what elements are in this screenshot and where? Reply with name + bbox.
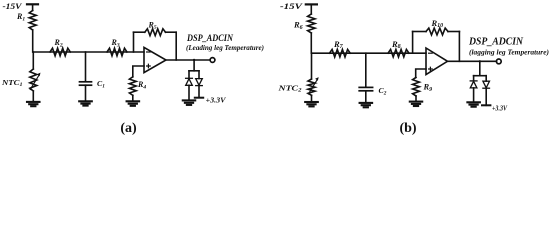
wire NTC2 column	[311, 53, 313, 79]
wire to D4	[485, 76, 487, 81]
wire NTC2 to ground	[311, 95, 313, 101]
resistor R1	[29, 11, 36, 31]
op-amp U2	[426, 48, 448, 75]
wire plus input	[133, 66, 144, 77]
power rail -15V symbol (b)	[306, 4, 317, 14]
svg-text:(b): (b)	[399, 121, 416, 136]
wire main rail (b)	[311, 52, 426, 54]
svg-text:-15V: -15V	[280, 1, 304, 11]
wire diode bracket (b)	[474, 75, 487, 77]
svg-text:DSP_ADCIN: DSP_ADCIN	[186, 33, 233, 43]
svg-text:-15V: -15V	[3, 1, 23, 11]
resistor R8	[388, 49, 409, 57]
thermistor NTC2	[308, 77, 319, 95]
diode D3 (to ground)	[470, 81, 477, 88]
svg-text:DSP_ADCIN: DSP_ADCIN	[468, 37, 524, 48]
ground under C2	[360, 103, 373, 107]
ground under D3	[467, 102, 480, 106]
resistor R5	[145, 29, 166, 36]
wire diode bracket	[189, 70, 199, 72]
wire D1 to ground	[188, 85, 190, 99]
wire plus input (b)	[416, 69, 426, 77]
thermistor NTC1	[30, 69, 41, 91]
wire to D2	[198, 71, 200, 79]
ground under R9	[410, 102, 422, 106]
wire R9 to ground	[415, 96, 417, 101]
svg-text:(a): (a)	[120, 121, 137, 136]
+3.3V rail bar (b)	[482, 104, 490, 106]
resistor R7	[330, 49, 351, 57]
diode D4 (to +3.3V)	[483, 81, 490, 88]
wire NTC1 column	[32, 52, 34, 69]
diode D1 (to ground)	[186, 78, 193, 85]
wire C2 column	[365, 53, 367, 87]
wire to D1	[188, 71, 190, 78]
svg-text:(lagging leg Temperature): (lagging leg Temperature)	[469, 47, 549, 56]
wire feedback up (b)	[412, 32, 414, 54]
op-amp U1	[144, 47, 166, 72]
wire feedback up	[133, 32, 135, 52]
wire output	[166, 59, 210, 61]
wire D4 to +3.3V	[485, 88, 487, 105]
wire D3 to ground	[473, 88, 475, 102]
ground under D1	[183, 100, 195, 105]
terminal circle (b)	[496, 59, 501, 64]
wire junction down (b)	[479, 61, 481, 75]
resistor R6	[308, 14, 315, 33]
wire junction down	[193, 60, 195, 71]
wire R1 to rail	[32, 30, 34, 52]
wire to D3	[473, 76, 475, 81]
wire D2 to +3.3V	[198, 86, 200, 98]
svg-text:+3.3V: +3.3V	[492, 105, 507, 112]
wire feedback top right (b)	[448, 31, 459, 33]
svg-text:+3.3V: +3.3V	[206, 97, 227, 105]
ground under NTC2	[305, 102, 318, 106]
terminal circle	[210, 58, 215, 63]
power rail -15V symbol	[27, 4, 38, 10]
capacitor C2	[359, 87, 372, 90]
resistor R3	[107, 48, 127, 56]
wire NTC1 to ground	[32, 91, 34, 101]
wire output (b)	[448, 60, 497, 62]
wire feedback down to output (b)	[458, 32, 460, 62]
wire R4 to ground	[132, 95, 134, 100]
capacitor C1	[80, 82, 92, 85]
wire feedback down to output	[175, 32, 177, 60]
junction node	[193, 59, 195, 61]
wire feedback top left (b)	[413, 31, 426, 33]
ground under C1	[79, 101, 92, 105]
wire C1 to ground	[85, 85, 87, 100]
diode D2 (to +3.3V)	[196, 79, 203, 86]
resistor R4	[129, 77, 136, 96]
+3.3V rail bar	[195, 97, 203, 99]
junction node (b)	[479, 60, 481, 62]
wire R6 to rail	[310, 33, 312, 53]
wire C1 column	[85, 52, 87, 82]
wire main rail	[33, 51, 144, 53]
wire C2 to ground	[365, 91, 367, 102]
resistor R10	[426, 28, 448, 35]
svg-text:(Leading leg Temperature): (Leading leg Temperature)	[186, 43, 264, 52]
wire feedback top right	[166, 31, 177, 33]
ground under R4	[127, 101, 140, 106]
ground under NTC1	[27, 102, 40, 106]
resistor R2	[50, 48, 70, 56]
wire feedback top left	[134, 31, 145, 33]
resistor R9	[413, 77, 420, 96]
